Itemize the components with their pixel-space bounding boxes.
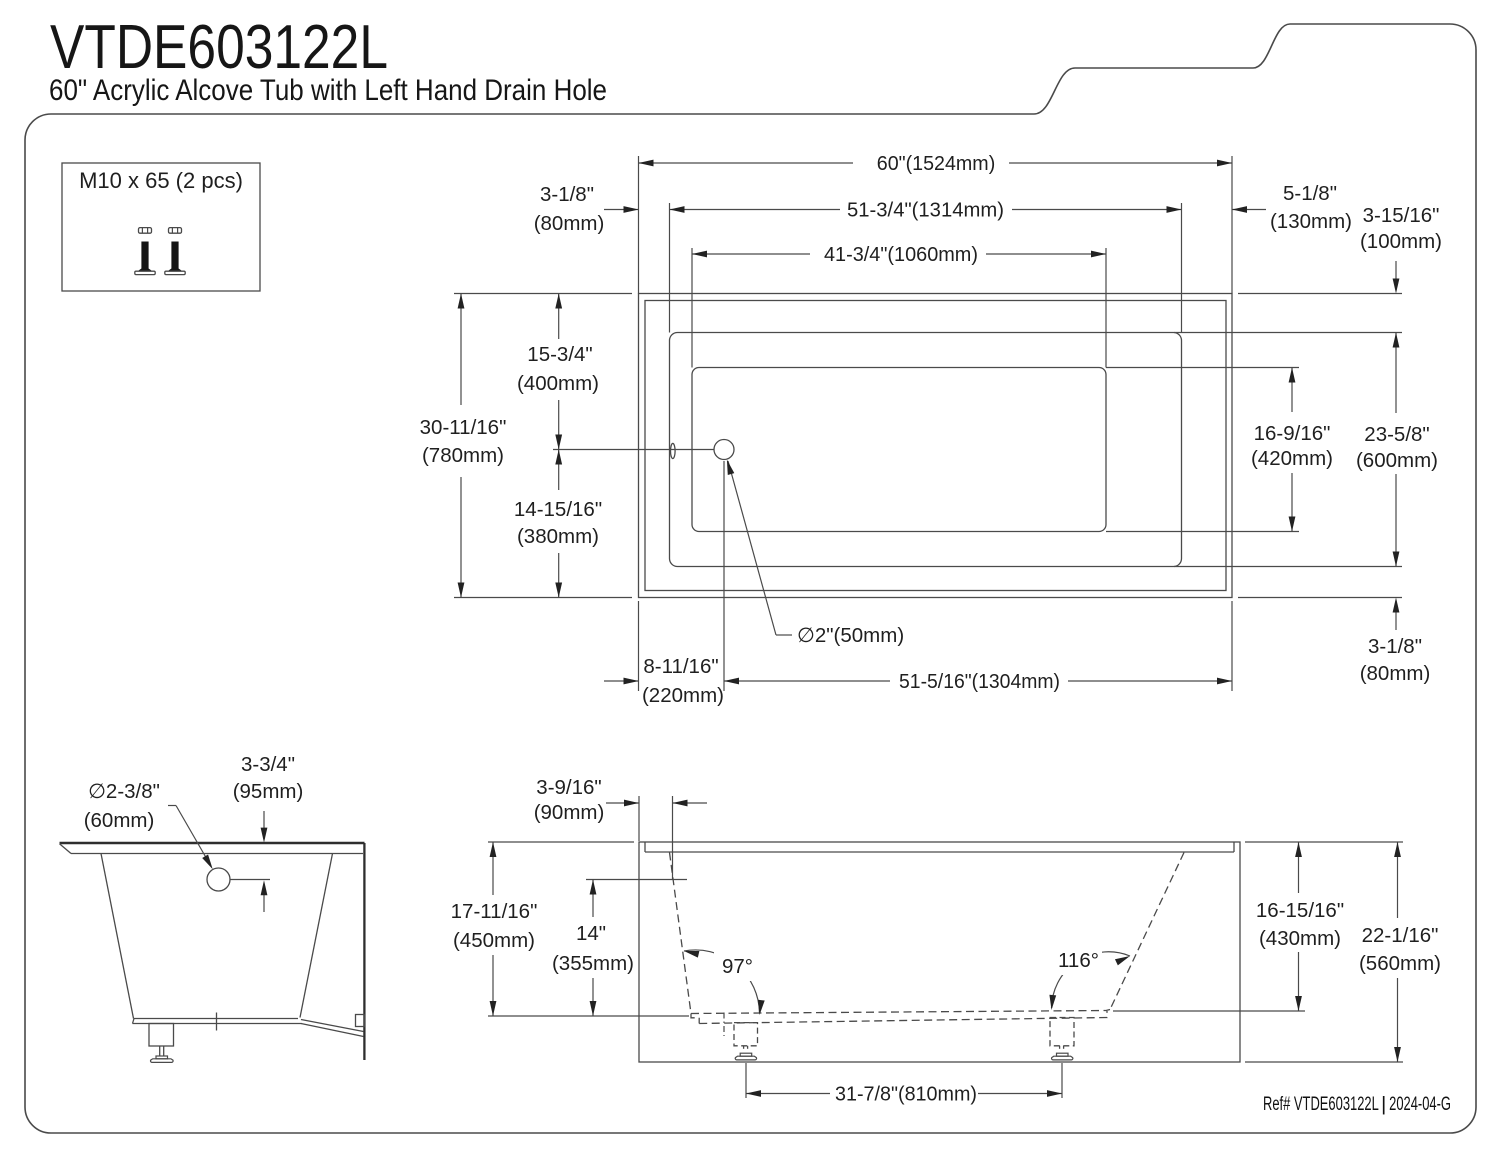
end view: left tub wall	[101, 854, 134, 1019]
plan view: tub floor rounded rect	[692, 368, 1106, 532]
svg-text:3-9/16": 3-9/16"	[536, 776, 601, 799]
svg-text:(600mm): (600mm)	[1356, 449, 1438, 472]
hardware box M10 x 65	[62, 163, 260, 291]
dim 3-15/16 deck to rim	[1238, 293, 1402, 295]
svg-text:(420mm): (420mm)	[1251, 447, 1333, 470]
dim 16-15/16 rim to floor	[1298, 842, 1300, 893]
end view: leveling bolt	[159, 1046, 161, 1056]
section: rim band underside	[645, 851, 1234, 853]
svg-text:97°: 97°	[722, 955, 753, 978]
bolt icon at 175	[169, 228, 182, 234]
svg-text:116°: 116°	[1058, 949, 1099, 972]
angle 97 deg	[684, 950, 760, 1013]
end view: floor center tick	[216, 1013, 218, 1031]
end view: rim underside	[71, 853, 363, 855]
plan view: drain hole	[714, 440, 734, 460]
svg-text:51-3/4"(1314mm): 51-3/4"(1314mm)	[847, 199, 1004, 222]
svg-text:(95mm): (95mm)	[233, 780, 304, 803]
svg-text:3-3/4": 3-3/4"	[241, 753, 295, 776]
svg-text:14-15/16": 14-15/16"	[514, 498, 602, 521]
dim 17-11/16 rim to bottom	[492, 842, 494, 895]
dim 51-3/4 rim length	[669, 203, 671, 333]
section extension lines	[488, 841, 634, 843]
plan view: outer deck rectangle (double line)	[639, 294, 1233, 598]
section: dashed right wall	[1110, 853, 1184, 1010]
section: outer apron rectangle	[639, 842, 1240, 1062]
svg-text:(380mm): (380mm)	[517, 525, 599, 548]
dim 51-5/16 drain to right	[724, 680, 890, 682]
end view: overflow drain circle	[207, 868, 230, 891]
plan view: drain centerline	[553, 449, 715, 451]
dim 14 inch depth	[592, 880, 594, 918]
dim 41-3/4 floor length	[691, 248, 693, 368]
svg-text:14": 14"	[576, 922, 606, 945]
dim 16-9/16 floor width	[1106, 367, 1299, 369]
section: right foot dashed	[1050, 1018, 1074, 1046]
end view: rim top (thick)	[60, 842, 365, 845]
svg-text:∅2"(50mm): ∅2"(50mm)	[797, 624, 904, 647]
plan view: overflow hole on rim	[671, 443, 676, 458]
section: right foot pad	[1057, 1053, 1069, 1056]
svg-text:(450mm): (450mm)	[453, 929, 535, 952]
end view: leg block	[149, 1024, 174, 1047]
end view: wall bracket	[356, 1015, 365, 1027]
section: dashed tub profile left wall	[670, 853, 692, 1014]
svg-text:3-15/16": 3-15/16"	[1363, 204, 1440, 227]
svg-text:3-1/8": 3-1/8"	[540, 183, 594, 206]
section: dashed tub floor outer	[699, 1011, 1107, 1024]
end view: rim left end slant	[60, 844, 72, 854]
dim 3-1/8 rim to deck bottom	[1238, 597, 1402, 599]
svg-text:16-15/16": 16-15/16"	[1256, 899, 1344, 922]
svg-text:(780mm): (780mm)	[422, 444, 504, 467]
svg-text:(220mm): (220mm)	[642, 684, 724, 707]
label diameter 2 inch drain	[728, 461, 776, 635]
svg-text:30-11/16": 30-11/16"	[420, 416, 507, 439]
svg-text:(80mm): (80mm)	[534, 212, 605, 235]
svg-text:15-3/4": 15-3/4"	[527, 343, 592, 366]
plan view: tub rim rounded rect	[670, 333, 1182, 567]
svg-text:M10 x 65 (2 pcs): M10 x 65 (2 pcs)	[79, 168, 243, 193]
section: left foot pad	[740, 1053, 752, 1056]
dim 23-5/8 rim width	[1174, 332, 1402, 334]
dim 8-11/16 drain offset	[638, 601, 640, 691]
svg-text:41-3/4"(1060mm): 41-3/4"(1060mm)	[824, 243, 978, 266]
section: drain tick	[723, 1013, 725, 1037]
svg-text:(100mm): (100mm)	[1360, 230, 1442, 253]
dim 60 inch overall length	[638, 156, 640, 294]
angle 116 deg	[1052, 952, 1131, 1008]
svg-text:17-11/16": 17-11/16"	[451, 900, 538, 923]
section: dashed shell step left	[691, 1014, 699, 1024]
end view: right tub wall	[300, 854, 333, 1018]
svg-text:8-11/16": 8-11/16"	[643, 655, 718, 678]
end view: support strut	[301, 1020, 364, 1032]
svg-text:51-5/16"(1304mm): 51-5/16"(1304mm)	[899, 670, 1060, 693]
svg-text:5-1/8": 5-1/8"	[1283, 182, 1337, 205]
dim 30-11/16 overall width	[454, 293, 632, 295]
svg-text:22-1/16": 22-1/16"	[1362, 924, 1439, 947]
svg-text:60"(1524mm): 60"(1524mm)	[877, 152, 996, 175]
dim 31-7/8 feet spacing	[746, 1093, 830, 1095]
dim 5-1/8 right deck	[1232, 209, 1266, 211]
dim 15-3/4 top to drain center	[558, 294, 560, 340]
end view: back wall vertical	[363, 843, 365, 1060]
bolt icon at 145	[139, 228, 152, 234]
svg-text:31-7/8"(810mm): 31-7/8"(810mm)	[835, 1083, 977, 1106]
svg-text:(130mm): (130mm)	[1270, 210, 1352, 233]
dim 14-15/16 drain center to bottom	[558, 450, 560, 491]
dim 22-1/16 total height	[1397, 842, 1399, 918]
section: dashed tub floor inner	[691, 1010, 1110, 1014]
svg-text:(400mm): (400mm)	[517, 372, 599, 395]
svg-text:16-9/16": 16-9/16"	[1254, 422, 1331, 445]
end view: floor band	[134, 1018, 298, 1020]
svg-text:60" Acrylic Alcove Tub with Le: 60" Acrylic Alcove Tub with Left Hand Dr…	[49, 74, 607, 107]
svg-text:Ref# VTDE603122L | 2024-04-G: Ref# VTDE603122L | 2024-04-G	[1263, 1094, 1451, 1115]
dim 3-1/8 left deck	[604, 209, 639, 211]
section: left foot dashed	[734, 1023, 758, 1046]
svg-text:VTDE603122L: VTDE603122L	[50, 13, 388, 82]
svg-text:23-5/8": 23-5/8"	[1364, 423, 1429, 446]
svg-text:∅2-3/8": ∅2-3/8"	[88, 780, 160, 803]
svg-text:(560mm): (560mm)	[1359, 952, 1441, 975]
svg-text:(355mm): (355mm)	[552, 952, 634, 975]
svg-text:(80mm): (80mm)	[1360, 662, 1431, 685]
svg-text:3-1/8": 3-1/8"	[1368, 635, 1422, 658]
svg-text:(60mm): (60mm)	[84, 809, 155, 832]
svg-text:(90mm): (90mm)	[534, 801, 605, 824]
svg-text:(430mm): (430mm)	[1259, 927, 1341, 950]
